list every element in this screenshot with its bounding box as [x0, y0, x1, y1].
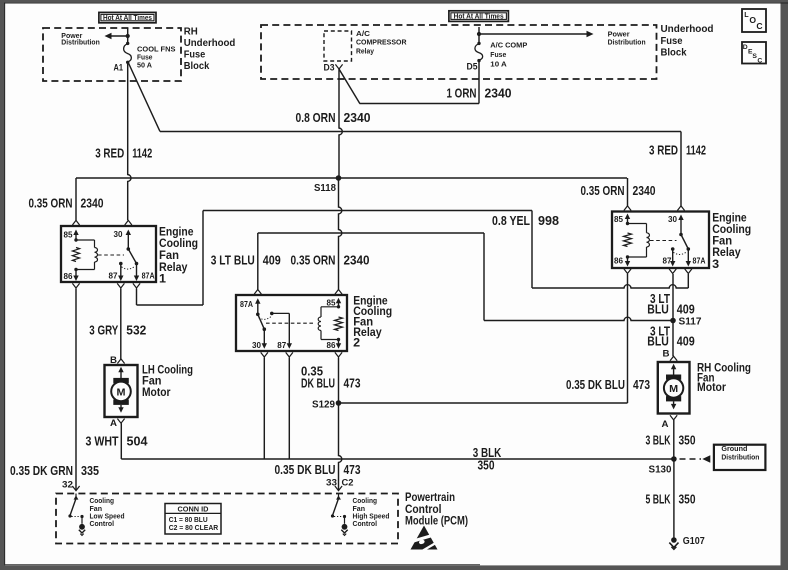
connector chevron at D3 — [335, 64, 342, 69]
svg-text:409: 409 — [677, 301, 695, 316]
wire 5 BLK 350 S130 to G107 — [673, 459, 675, 540]
LH motor armature circle — [111, 382, 131, 402]
svg-text:S117: S117 — [679, 317, 702, 328]
svg-text:M: M — [669, 383, 678, 395]
svg-text:Underhood: Underhood — [661, 24, 714, 35]
svg-text:30: 30 — [668, 215, 678, 224]
relay3 pin 85 arrow — [627, 217, 629, 224]
relay3 pin 30 arrow — [680, 218, 682, 235]
relay1 coil winding — [95, 248, 98, 263]
Ground Distribution box — [714, 445, 766, 470]
svg-text:B: B — [663, 349, 670, 360]
arrow to Power Distribution (right) — [479, 33, 590, 35]
LH motor top arrow — [120, 370, 122, 378]
relay2 switch blade — [258, 314, 265, 329]
relay3 pin 87 arrow — [672, 249, 674, 263]
svg-text:409: 409 — [263, 253, 281, 268]
svg-text:0.35 DK BLU: 0.35 DK BLU — [566, 377, 625, 392]
relay3 switch blade — [681, 235, 688, 250]
wire 0.8 YEL 998 from relay1 87A — [136, 289, 138, 306]
wire relay2 pin87 to ground bus — [288, 358, 290, 460]
relay2 bottom connector chevrons — [261, 352, 268, 357]
svg-text:85: 85 — [64, 231, 74, 240]
svg-text:86: 86 — [64, 272, 74, 281]
relay3 bottom connector chevrons — [624, 269, 631, 274]
svg-text:O: O — [749, 15, 756, 25]
svg-text:30: 30 — [252, 341, 262, 350]
svg-text:Fan: Fan — [90, 506, 103, 513]
PCM pin 33 connector chevron — [335, 486, 342, 491]
PCM high speed switch — [338, 494, 340, 497]
svg-text:0.8 ORN: 0.8 ORN — [296, 110, 336, 125]
svg-text:85: 85 — [327, 298, 337, 307]
wire 0.35 ORN down to relay1 pin85 — [75, 178, 77, 220]
wire 3 LT BLU 409 from relay2 87A to S117 — [257, 233, 259, 290]
wire 0.35 DK GRN 335 relay1 86 to PCM pin 32 — [75, 289, 77, 491]
wire 0.35 ORN down to relay3 pin85 — [627, 178, 629, 206]
splice S129 — [336, 400, 342, 406]
fuse COOL FNS 50A — [124, 44, 132, 62]
wire 3 RED 1142 down to relay1 pin30 — [128, 62, 131, 220]
svg-text:532: 532 — [126, 323, 146, 338]
LH motor brushes — [113, 378, 129, 383]
svg-text:Relay: Relay — [356, 46, 375, 55]
relay3 pin 86 arrow — [627, 257, 629, 263]
svg-text:0.35 ORN: 0.35 ORN — [291, 253, 336, 268]
svg-text:A/C COMP: A/C COMP — [490, 40, 527, 49]
LH motor A connector chevron — [117, 419, 124, 424]
splice S118 — [336, 175, 342, 181]
svg-text:350: 350 — [679, 432, 696, 447]
svg-text:Motor: Motor — [142, 387, 171, 399]
relay2 top connector chevrons — [254, 290, 261, 295]
svg-text:B: B — [110, 355, 117, 366]
svg-text:2340: 2340 — [344, 253, 370, 268]
relay2 pin 87A contact dot — [256, 313, 260, 317]
svg-text:3 RED: 3 RED — [649, 143, 678, 158]
svg-text:86: 86 — [327, 341, 337, 350]
relay3 pin 87A arrow — [687, 249, 689, 263]
svg-text:50 A: 50 A — [137, 60, 153, 69]
ground G107 symbol — [669, 543, 678, 548]
wire 0.8 ORN 2340 from D3 down to S118 — [339, 69, 342, 178]
PCM low speed switch — [75, 494, 77, 497]
svg-text:0.35 DK GRN: 0.35 DK GRN — [10, 463, 73, 478]
svg-text:Fuse: Fuse — [184, 50, 206, 61]
svg-text:86: 86 — [614, 257, 624, 266]
svg-text:409: 409 — [677, 334, 695, 349]
RH motor brushes — [666, 375, 681, 380]
relay1 switch blade — [128, 249, 136, 264]
relay1 coil loop — [76, 239, 95, 241]
relay2 coil winding — [318, 317, 321, 331]
splice S130 — [671, 456, 677, 462]
relay2 coil junction dots — [337, 305, 340, 308]
relay2 coil loop — [321, 306, 339, 308]
relay2 actuation dashed line — [266, 322, 315, 324]
svg-text:10 A: 10 A — [490, 60, 507, 69]
RH motor armature circle — [664, 378, 683, 397]
relay3 coil loop — [628, 223, 647, 225]
relay U2 Engine Cooling Fan Relay 2 box — [236, 295, 347, 351]
svg-text:Motor: Motor — [697, 382, 726, 394]
svg-text:Block: Block — [661, 47, 687, 58]
svg-text:3 LT BLU: 3 LT BLU — [211, 253, 255, 268]
relay3 pin 87 contact dot — [671, 247, 675, 251]
svg-text:998: 998 — [538, 213, 559, 228]
svg-text:Hot At All Times: Hot At All Times — [103, 15, 152, 22]
svg-text:High Speed: High Speed — [353, 513, 390, 520]
relay3 coil resistance zigzag — [624, 233, 632, 247]
relay1 coil junction dots — [74, 238, 77, 241]
svg-text:Cooling: Cooling — [353, 498, 378, 505]
svg-text:3 BLK: 3 BLK — [646, 432, 671, 447]
relay1 pin 85 arrow — [75, 233, 77, 240]
relay1 actuation dashed line — [98, 254, 124, 256]
RH motor B connector chevron — [670, 356, 677, 361]
motor M2 RH Cooling Fan Motor box — [658, 362, 690, 414]
svg-text:87: 87 — [277, 341, 287, 350]
wire A1 fuse feed from hot feed — [127, 28, 129, 43]
wire 3 WHT 504 LH motor A to ground bus — [120, 423, 122, 459]
svg-text:32: 32 — [62, 480, 73, 491]
svg-text:350: 350 — [478, 457, 495, 472]
svg-text:2340: 2340 — [633, 183, 656, 198]
wire 3 RED 1142 horizontal bus — [160, 131, 681, 133]
RH underhood fuse block dashed box — [43, 28, 181, 81]
svg-text:CONN ID: CONN ID — [178, 504, 210, 513]
wire D5 fuse feed — [478, 27, 480, 43]
svg-text:2: 2 — [353, 336, 360, 350]
wire 3 RED 1142 diagonal from fuse A1 — [128, 62, 160, 132]
svg-text:350: 350 — [679, 492, 696, 507]
svg-text:Hot At All Times: Hot At All Times — [454, 14, 504, 21]
relay2 pin 87 contact dot — [270, 312, 274, 316]
relay2 pin 30 wire and arrow — [263, 329, 265, 345]
svg-text:1 ORN: 1 ORN — [447, 86, 477, 101]
relay1 coil resistance zigzag — [72, 248, 79, 262]
wire 0.35 DK BLU 473 relay2 86 to S129 and PCM pin 33 — [339, 358, 342, 491]
arrow to Power Distribution (left) — [109, 35, 128, 37]
svg-text:30: 30 — [114, 230, 124, 239]
RH motor A connector chevron — [670, 415, 677, 420]
svg-text:Fuse: Fuse — [661, 36, 683, 47]
LH motor bottom arrow — [120, 405, 122, 409]
svg-text:Control: Control — [90, 521, 115, 528]
relay1 switch throw dotted arc — [122, 267, 135, 270]
relay3 coil junction dots — [626, 222, 629, 225]
RH motor top arrow — [673, 367, 675, 374]
svg-text:BLU: BLU — [647, 301, 669, 316]
svg-text:LH Cooling: LH Cooling — [142, 364, 193, 376]
RH motor bottom arrow — [673, 401, 675, 406]
svg-text:Distribution: Distribution — [61, 37, 100, 46]
svg-text:S118: S118 — [314, 183, 336, 194]
LOC reference box — [742, 9, 766, 32]
svg-text:Control: Control — [353, 521, 378, 528]
svg-text:1142: 1142 — [686, 143, 706, 158]
wire S129 to relay3 86 (dk blu) — [339, 402, 628, 404]
svg-text:1142: 1142 — [132, 145, 152, 160]
svg-text:Distribution: Distribution — [721, 452, 759, 461]
svg-text:3: 3 — [712, 257, 719, 271]
relay1 bottom connector chevrons — [72, 283, 79, 288]
relay2 pin 87 arrow — [288, 313, 290, 345]
relay1 pin 87 arrow — [120, 264, 122, 278]
wire 0.35 ORN 2340 from S118 down to relay2 pin85 — [339, 178, 342, 290]
svg-text:RH: RH — [184, 27, 198, 38]
svg-text:5 BLK: 5 BLK — [646, 492, 671, 507]
relay U3 Engine Cooling Fan Relay 3 box — [612, 212, 709, 269]
svg-text:3 RED: 3 RED — [95, 145, 124, 160]
svg-text:87: 87 — [109, 271, 119, 280]
svg-text:Cooling: Cooling — [90, 498, 115, 505]
relay3 top connector chevrons — [624, 206, 631, 211]
relay1 pin 30 arrow — [127, 233, 129, 249]
svg-text:473: 473 — [344, 462, 361, 477]
svg-text:3 WHT: 3 WHT — [86, 433, 119, 448]
svg-text:87A: 87A — [240, 300, 253, 309]
svg-text:Underhood: Underhood — [184, 38, 236, 49]
wire 1 ORN 2340 from D5 to D3 — [478, 61, 480, 104]
dashed link to Ground Distribution — [680, 458, 702, 460]
svg-text:87A: 87A — [142, 271, 155, 280]
underhood fuse block dashed box (wide) — [261, 25, 657, 79]
relay1 pin 86 arrow — [75, 270, 77, 278]
fuse A/C COMP 10A — [475, 44, 483, 61]
svg-text:335: 335 — [81, 463, 99, 478]
svg-text:Powertrain: Powertrain — [405, 492, 455, 504]
svg-text:BLU: BLU — [647, 334, 669, 349]
svg-text:2340: 2340 — [485, 86, 512, 101]
svg-text:0.35 DK BLU: 0.35 DK BLU — [275, 462, 336, 477]
label Hot At All Times (right) — [449, 11, 509, 22]
svg-text:87A: 87A — [693, 257, 706, 266]
svg-text:Fan: Fan — [353, 506, 366, 513]
svg-text:0.35 ORN: 0.35 ORN — [581, 183, 625, 198]
relay3 switch throw dotted arc — [673, 252, 686, 254]
wire 0.35 ORN 2340 horizontal bus through S118 — [76, 177, 627, 179]
junction dot at power distribution tap (right) — [477, 32, 481, 36]
label Hot At All Times (left) — [99, 12, 156, 22]
relay1 switch pivot dot — [127, 247, 131, 251]
wire relay2 pin30 to ground bus — [263, 358, 265, 460]
svg-text:Block: Block — [184, 61, 210, 72]
PCM dashed box — [56, 494, 398, 544]
svg-text:Module (PCM): Module (PCM) — [405, 516, 468, 528]
svg-text:3 GRY: 3 GRY — [89, 323, 118, 338]
wire 3 GRY 532 relay1 87 to LH motor — [120, 289, 122, 360]
svg-text:0.8 YEL: 0.8 YEL — [492, 213, 530, 228]
svg-text:G107: G107 — [683, 536, 705, 547]
relay3 coil winding — [647, 233, 650, 247]
svg-text:473: 473 — [344, 375, 361, 390]
relay2 switch throw dotted arc — [259, 317, 271, 320]
DESC reference box — [742, 42, 766, 64]
svg-text:Control: Control — [405, 504, 442, 516]
svg-text:DK BLU: DK BLU — [301, 375, 335, 390]
svg-text:Low Speed: Low Speed — [90, 513, 125, 520]
svg-text:A: A — [110, 418, 117, 429]
ground G107 dot — [671, 537, 677, 543]
wire 3 BLK 350 ground bus to S130 — [121, 458, 674, 460]
svg-text:D5: D5 — [467, 62, 478, 72]
svg-text:D3: D3 — [324, 62, 335, 72]
relay3 switch pivot dot — [679, 233, 683, 237]
svg-text:S129: S129 — [312, 400, 335, 411]
svg-text:2340: 2340 — [81, 195, 104, 210]
svg-text:C2 = 80 CLEAR: C2 = 80 CLEAR — [169, 523, 219, 532]
svg-text:M: M — [117, 386, 126, 398]
relay2 pin 86 arrow — [338, 340, 340, 346]
svg-text:S130: S130 — [649, 464, 672, 475]
svg-text:A1: A1 — [114, 63, 124, 73]
svg-text:1: 1 — [159, 272, 166, 286]
svg-text:C: C — [757, 58, 762, 65]
svg-text:C: C — [756, 21, 762, 31]
svg-text:Fan: Fan — [142, 376, 162, 388]
relay U1 Engine Cooling Fan Relay 1 box — [61, 226, 156, 282]
svg-text:2340: 2340 — [344, 110, 371, 125]
wire 3 LT BLU 409 relay3 87 to S117 to RH motor B — [672, 274, 674, 356]
svg-text:A: A — [662, 419, 669, 430]
relay2 pin 85 arrow — [338, 301, 340, 308]
svg-text:Fuse: Fuse — [490, 50, 506, 59]
motor M1 LH Cooling Fan Motor box — [105, 365, 138, 417]
svg-text:C2: C2 — [342, 477, 354, 488]
relay2 coil resistance zigzag — [335, 317, 343, 331]
svg-text:Distribution: Distribution — [608, 37, 646, 46]
svg-text:473: 473 — [633, 377, 650, 392]
relay2 pin 87 link wire — [272, 312, 290, 314]
relay1 top connector chevrons — [72, 220, 79, 225]
ESD warning triangles — [411, 526, 438, 550]
LH motor B connector chevron — [117, 359, 124, 364]
svg-text:0.35 ORN: 0.35 ORN — [29, 195, 73, 210]
wire 3 RED 1142 down to relay3 pin30 — [680, 132, 682, 206]
wire 3 BLK 350 RH motor A down — [673, 420, 675, 459]
relay1 pin 87 contact dot — [119, 262, 123, 266]
junction dot power distribution tap — [126, 34, 130, 38]
svg-text:85: 85 — [614, 215, 624, 224]
splice S117 — [670, 318, 676, 324]
CONN ID table box — [165, 504, 221, 535]
relay3 actuation dashed line — [650, 240, 677, 242]
PCM pin 32 connector chevron — [72, 486, 79, 491]
relay2 pin 87A arrow — [257, 302, 259, 313]
svg-text:504: 504 — [127, 433, 149, 448]
A/C compressor relay dashed box — [324, 31, 352, 61]
relay1 pin 87A arrow — [136, 264, 138, 278]
